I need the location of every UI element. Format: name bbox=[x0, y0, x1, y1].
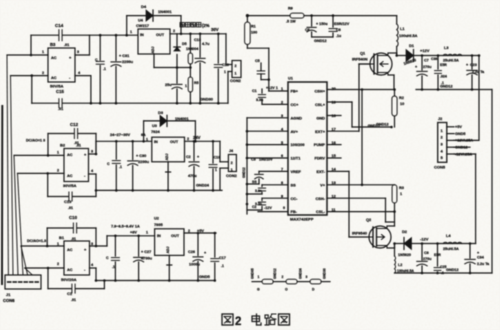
svg-text:IRF540N: IRF540N bbox=[352, 57, 368, 62]
svg-text:+8V: +8V bbox=[130, 231, 137, 235]
svg-text:270u: 270u bbox=[423, 257, 432, 261]
svg-text:1: 1 bbox=[400, 192, 402, 196]
svg-text:C8: C8 bbox=[336, 28, 341, 32]
svg-text:12/T1: 12/T1 bbox=[291, 156, 302, 161]
svg-text:GND24: GND24 bbox=[196, 183, 210, 188]
svg-text:3.3n: 3.3n bbox=[255, 202, 262, 206]
svg-text:GND30: GND30 bbox=[323, 268, 327, 279]
svg-text:.01: .01 bbox=[71, 298, 76, 302]
svg-text:GND24: GND24 bbox=[299, 268, 303, 279]
svg-text:2: 2 bbox=[235, 64, 237, 68]
svg-text:IN: IN bbox=[157, 234, 161, 238]
svg-text:30V/5A: 30V/5A bbox=[63, 183, 76, 188]
svg-text:IN: IN bbox=[154, 140, 158, 144]
svg-text:30V: 30V bbox=[211, 27, 219, 32]
svg-text:3.3n: 3.3n bbox=[255, 189, 262, 193]
svg-text:2.2u Ta: 2.2u Ta bbox=[477, 262, 490, 266]
svg-text:CON2: CON2 bbox=[230, 78, 242, 83]
svg-text:.1: .1 bbox=[103, 67, 106, 71]
svg-text:C2: C2 bbox=[186, 155, 191, 159]
svg-text:IN: IN bbox=[140, 33, 144, 37]
svg-text:J1: J1 bbox=[6, 292, 11, 297]
svg-text:ADJ: ADJ bbox=[165, 154, 169, 161]
svg-text:2: 2 bbox=[282, 275, 284, 279]
svg-text:R9: R9 bbox=[288, 7, 293, 11]
svg-text:OUT: OUT bbox=[171, 234, 180, 238]
svg-text:C8: C8 bbox=[424, 251, 429, 255]
svg-text:C38: C38 bbox=[431, 57, 437, 61]
svg-text:CW217: CW217 bbox=[136, 23, 149, 28]
svg-text:CC-: CC- bbox=[291, 196, 299, 201]
svg-text:O: O bbox=[285, 288, 288, 292]
svg-text:C34: C34 bbox=[477, 256, 485, 260]
svg-text:C7: C7 bbox=[424, 59, 429, 63]
svg-text:GND5: GND5 bbox=[199, 274, 211, 279]
svg-text:1: 1 bbox=[185, 84, 187, 88]
svg-text:AC: AC bbox=[67, 268, 73, 272]
svg-text:GND: GND bbox=[316, 115, 325, 120]
svg-text:3: 3 bbox=[91, 150, 93, 154]
svg-text:1: 1 bbox=[231, 168, 233, 172]
svg-text:U2: U2 bbox=[154, 217, 159, 221]
svg-text:U3: U3 bbox=[152, 124, 157, 128]
svg-text:Q1: Q1 bbox=[360, 51, 366, 56]
svg-text:1: 1 bbox=[57, 151, 59, 155]
svg-text:CON2: CON2 bbox=[226, 173, 238, 178]
svg-text:DC/AO=1.3: DC/AO=1.3 bbox=[27, 239, 46, 243]
svg-text:D1: D1 bbox=[409, 43, 415, 48]
svg-text:GND12: GND12 bbox=[368, 124, 380, 128]
svg-text:C1: C1 bbox=[252, 89, 257, 93]
svg-text:FDRV: FDRV bbox=[314, 156, 325, 161]
svg-text:CSH+: CSH+ bbox=[315, 89, 326, 94]
svg-text:.01: .01 bbox=[71, 237, 76, 241]
svg-text:-12V: -12V bbox=[420, 237, 429, 242]
svg-text:ADJ: ADJ bbox=[166, 247, 170, 254]
svg-text:2: 2 bbox=[57, 262, 59, 266]
svg-text:IRF9540: IRF9540 bbox=[352, 231, 367, 236]
svg-text:R5: R5 bbox=[194, 81, 199, 85]
svg-text:100/200: 100/200 bbox=[291, 142, 305, 147]
svg-text:G: G bbox=[257, 288, 260, 292]
svg-text:1: 1 bbox=[130, 30, 132, 34]
svg-text:24~27~30V: 24~27~30V bbox=[110, 132, 131, 137]
svg-text:1000u: 1000u bbox=[189, 263, 200, 267]
svg-text:25uH/.5A: 25uH/.5A bbox=[443, 247, 459, 251]
svg-text:1N4004: 1N4004 bbox=[186, 47, 198, 51]
svg-text:GND12: GND12 bbox=[273, 268, 277, 279]
svg-text:U1: U1 bbox=[288, 77, 293, 81]
svg-text:C10: C10 bbox=[69, 215, 78, 220]
svg-text:CON5: CON5 bbox=[434, 165, 446, 170]
svg-text:1: 1 bbox=[215, 168, 217, 172]
svg-text:7.9~8.5~9.4V 1A: 7.9~8.5~9.4V 1A bbox=[111, 225, 140, 229]
svg-text:AC: AC bbox=[51, 56, 57, 60]
svg-text:270u: 270u bbox=[423, 65, 432, 69]
svg-text:D3: D3 bbox=[158, 110, 164, 115]
svg-text:J2: J2 bbox=[438, 117, 442, 121]
svg-text:C26: C26 bbox=[188, 250, 195, 254]
svg-text:SS: SS bbox=[291, 182, 297, 187]
svg-text:.01: .01 bbox=[74, 141, 79, 145]
svg-text:B3: B3 bbox=[50, 42, 56, 47]
svg-text:AGND: AGND bbox=[291, 115, 303, 120]
svg-text:C: C bbox=[107, 162, 110, 166]
svg-text:CON6: CON6 bbox=[3, 298, 15, 303]
svg-text:B1: B1 bbox=[59, 235, 65, 240]
svg-text:C1: C1 bbox=[67, 291, 73, 296]
svg-text:Q2: Q2 bbox=[366, 217, 372, 222]
svg-text:SS: SS bbox=[252, 180, 257, 184]
svg-text:C: C bbox=[95, 58, 98, 62]
svg-text:OUT: OUT bbox=[156, 33, 165, 37]
svg-text:C13: C13 bbox=[64, 199, 72, 204]
svg-text:1: 1 bbox=[42, 50, 44, 54]
svg-text:C23: C23 bbox=[470, 63, 477, 67]
svg-text:GND12: GND12 bbox=[446, 268, 459, 272]
svg-text:3.3n: 3.3n bbox=[256, 98, 263, 102]
svg-text:2: 2 bbox=[57, 169, 59, 173]
svg-text:10u/10V: 10u/10V bbox=[259, 158, 273, 162]
svg-text:1: 1 bbox=[235, 72, 237, 76]
svg-text:GND12: GND12 bbox=[314, 39, 327, 43]
svg-text:+ C31: + C31 bbox=[119, 54, 129, 58]
svg-text:CC+: CC+ bbox=[291, 102, 300, 107]
svg-text:.024: .024 bbox=[440, 75, 447, 79]
svg-text:AC: AC bbox=[67, 153, 73, 157]
svg-text:CSL+: CSL+ bbox=[315, 102, 326, 107]
svg-text:D2: D2 bbox=[402, 229, 408, 234]
svg-text:2: 2 bbox=[231, 161, 233, 165]
svg-text:24V: 24V bbox=[193, 135, 201, 140]
svg-text:.01: .01 bbox=[64, 43, 69, 47]
svg-text:2: 2 bbox=[42, 71, 44, 75]
svg-text:V+: V+ bbox=[320, 182, 326, 187]
svg-text:CSH-: CSH- bbox=[315, 196, 325, 201]
svg-text:7824: 7824 bbox=[151, 129, 160, 134]
svg-text:GND12: GND12 bbox=[242, 167, 246, 178]
svg-text:EXT+: EXT+ bbox=[315, 129, 326, 134]
svg-text:J4: J4 bbox=[229, 149, 233, 153]
svg-text:+ C27: + C27 bbox=[141, 250, 151, 254]
svg-text:D5: D5 bbox=[182, 42, 187, 46]
svg-text:R2: R2 bbox=[399, 96, 404, 100]
svg-text:7805: 7805 bbox=[154, 222, 163, 227]
svg-text:EXT-: EXT- bbox=[316, 169, 325, 174]
svg-text:1: 1 bbox=[146, 138, 148, 142]
svg-text:.1: .1 bbox=[119, 165, 122, 169]
svg-text:ADJ: ADJ bbox=[151, 47, 155, 54]
svg-text:C3: C3 bbox=[251, 158, 256, 162]
svg-text:B2: B2 bbox=[60, 143, 66, 148]
svg-text:2: 2 bbox=[173, 29, 175, 33]
svg-text:GND5: GND5 bbox=[455, 132, 466, 136]
svg-text:1N5820: 1N5820 bbox=[398, 253, 411, 257]
svg-text:3: 3 bbox=[306, 275, 308, 279]
svg-text:25u: 25u bbox=[165, 83, 172, 87]
svg-text:50V/20A: 50V/20A bbox=[61, 277, 77, 282]
svg-text:ESR/12V: ESR/12V bbox=[334, 22, 350, 26]
svg-text:0: 0 bbox=[283, 206, 285, 210]
svg-text:E5R: E5R bbox=[440, 63, 447, 67]
svg-text:1N4001: 1N4001 bbox=[158, 9, 172, 14]
svg-text:+12V 1: +12V 1 bbox=[266, 86, 278, 90]
svg-text:MAX742EPP: MAX742EPP bbox=[290, 217, 314, 222]
svg-text:.1u: .1u bbox=[336, 34, 341, 38]
svg-text:AC: AC bbox=[51, 76, 57, 80]
svg-text:C13: C13 bbox=[194, 38, 201, 42]
svg-text:C12: C12 bbox=[70, 122, 79, 127]
svg-text:C15: C15 bbox=[56, 89, 64, 94]
svg-text:2: 2 bbox=[187, 137, 189, 141]
svg-text:.1: .1 bbox=[221, 264, 224, 268]
svg-text:+12V: +12V bbox=[420, 48, 430, 53]
svg-text:.1: .1 bbox=[112, 265, 115, 269]
svg-text:1: 1 bbox=[258, 275, 260, 279]
svg-text:+ 150u: + 150u bbox=[316, 22, 328, 26]
svg-text:+ C30: + C30 bbox=[136, 154, 146, 158]
svg-text:C: C bbox=[106, 256, 109, 260]
svg-text:.01: .01 bbox=[68, 206, 73, 210]
svg-text:(2%: (2% bbox=[202, 23, 210, 28]
svg-text:1N4001: 1N4001 bbox=[175, 116, 189, 121]
svg-text:C17: C17 bbox=[219, 256, 226, 260]
svg-text:CSL-: CSL- bbox=[316, 209, 326, 214]
svg-text:AC: AC bbox=[67, 248, 73, 252]
svg-text:FB+: FB+ bbox=[291, 89, 299, 94]
svg-text:OUT: OUT bbox=[170, 140, 179, 144]
svg-text:100uH/.5A: 100uH/.5A bbox=[399, 34, 418, 38]
svg-text:2200u: 2200u bbox=[138, 159, 150, 164]
svg-text:D4: D4 bbox=[141, 4, 147, 9]
svg-text:C19: C19 bbox=[214, 156, 221, 160]
svg-text:C6: C6 bbox=[305, 28, 310, 32]
svg-text:GND30: GND30 bbox=[200, 97, 213, 102]
svg-text:L2: L2 bbox=[398, 263, 402, 267]
svg-text:C14: C14 bbox=[55, 23, 64, 28]
svg-text:10: 10 bbox=[400, 102, 404, 106]
svg-text:3: 3 bbox=[77, 50, 79, 54]
svg-text:50V/5A: 50V/5A bbox=[50, 84, 63, 89]
svg-text:1: 1 bbox=[57, 242, 59, 246]
svg-text:.5 1W: .5 1W bbox=[286, 20, 296, 24]
svg-text:-12V: -12V bbox=[264, 206, 272, 210]
svg-text:FB-: FB- bbox=[291, 209, 298, 214]
svg-text:1: 1 bbox=[224, 70, 226, 74]
svg-text:C5: C5 bbox=[255, 59, 260, 63]
svg-text:VREF: VREF bbox=[291, 169, 302, 174]
svg-text:4700u: 4700u bbox=[141, 256, 153, 261]
svg-text:25uH/.5A: 25uH/.5A bbox=[443, 59, 459, 63]
svg-text:2200u: 2200u bbox=[122, 59, 134, 64]
svg-text:1: 1 bbox=[146, 231, 148, 235]
svg-text:.01: .01 bbox=[58, 107, 63, 111]
svg-text:2: 2 bbox=[235, 316, 241, 328]
svg-text:R1: R1 bbox=[251, 25, 256, 29]
svg-text:PUMP: PUMP bbox=[314, 142, 326, 147]
svg-text:GND05: GND05 bbox=[251, 268, 255, 279]
svg-text:R3: R3 bbox=[399, 186, 404, 190]
svg-text:+5V: +5V bbox=[455, 125, 462, 129]
svg-text:470u: 470u bbox=[188, 174, 197, 178]
svg-text:DC/AO=1 3: DC/AO=1 3 bbox=[26, 139, 45, 143]
svg-text:AC: AC bbox=[67, 174, 73, 178]
svg-text:100: 100 bbox=[251, 31, 257, 35]
svg-text:4.7u: 4.7u bbox=[202, 42, 210, 46]
svg-text:AV+: AV+ bbox=[291, 129, 299, 134]
svg-text:GND12: GND12 bbox=[440, 85, 453, 89]
